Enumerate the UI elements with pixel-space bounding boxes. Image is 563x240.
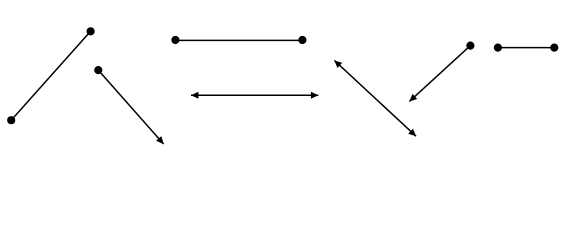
wire: [334, 60, 416, 136]
wire: [11, 31, 90, 120]
wire: [98, 70, 163, 144]
node (start dot): [466, 42, 474, 50]
segment 7: short horizontal line with endpoint dots: [494, 44, 559, 52]
wire: [498, 47, 554, 49]
node (left endpoint dot): [494, 44, 502, 52]
node (bottom endpoint dot): [7, 116, 15, 124]
segment 3: horizontal line with endpoint dots: [171, 36, 306, 44]
wire: [175, 39, 302, 41]
segment 1: slanted line with endpoint dots: [7, 27, 95, 124]
ray 2: dot start, arrow end (down-right): [94, 66, 163, 144]
node (right endpoint dot): [550, 44, 558, 52]
wire: [409, 46, 470, 102]
line 4: horizontal double-headed arrow: [191, 94, 318, 96]
line 5: diagonal double-headed arrow: [334, 60, 416, 136]
wire: [191, 94, 318, 96]
node (start dot): [94, 66, 102, 74]
node (right endpoint dot): [298, 36, 306, 44]
node (left endpoint dot): [171, 36, 179, 44]
ray 6: dot start, arrow end (down-left): [409, 42, 474, 102]
node (top endpoint dot): [87, 27, 95, 35]
